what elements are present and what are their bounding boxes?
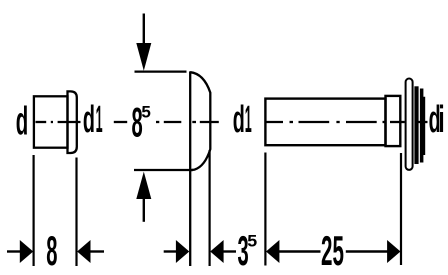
center line through sleeve <box>36 121 81 123</box>
seal ring rubber profile right bar <box>420 89 425 163</box>
svg-text:5: 5 <box>141 102 150 121</box>
arrow pointing right at dimension 8 <box>7 250 21 252</box>
center line dot inside dome <box>192 121 196 123</box>
top reference line of cap diameter <box>135 70 187 72</box>
dome cap outline <box>190 72 210 170</box>
center line dash crossing dome right edge <box>200 121 219 123</box>
center line through tube <box>266 121 428 123</box>
seal ring metal washer (capsule outline) <box>406 79 413 170</box>
svg-text:25: 25 <box>321 228 344 275</box>
center line dash before 8.5 label <box>114 121 127 123</box>
extension line right of dimension 3.5 <box>209 150 211 266</box>
tube end ring <box>386 96 401 146</box>
center line dash toward dome <box>164 121 182 123</box>
svg-text:d: d <box>16 98 28 143</box>
svg-text:5: 5 <box>247 231 257 251</box>
sleeve end collar (rounded cap) <box>68 91 77 153</box>
svg-text:d: d <box>83 99 95 140</box>
bottom reference line of cap diameter <box>134 169 193 171</box>
extension line right of dimension 8 <box>75 158 77 267</box>
seal ring rubber profile left bar <box>414 86 418 164</box>
arrow pointing down at cap top <box>143 14 145 45</box>
center line dot after 8.5 <box>156 121 159 123</box>
svg-text:1: 1 <box>96 97 103 140</box>
svg-text:8: 8 <box>46 227 57 274</box>
extension line left of dimension 8 <box>32 155 34 266</box>
svg-text:1: 1 <box>245 97 252 140</box>
sleeve body rectangle <box>34 96 68 147</box>
svg-text:d: d <box>233 99 245 140</box>
svg-text:i: i <box>438 98 444 140</box>
arrow pointing right at dimension 3.5 <box>164 250 177 252</box>
arrow pointing right at dimension 25 <box>346 250 389 252</box>
arrow pointing left at dimension 8 <box>90 250 104 252</box>
arrow pointing left at dimension 3.5 <box>224 250 237 252</box>
arrow pointing up at cap bottom <box>143 198 145 222</box>
dome cap left face and extension line <box>189 71 191 266</box>
extension line left of dimension 25 <box>264 153 266 266</box>
arrow pointing left at dimension 25 <box>266 240 279 263</box>
extension line right of dimension 25 <box>400 153 402 265</box>
tube body rectangle <box>265 99 385 146</box>
